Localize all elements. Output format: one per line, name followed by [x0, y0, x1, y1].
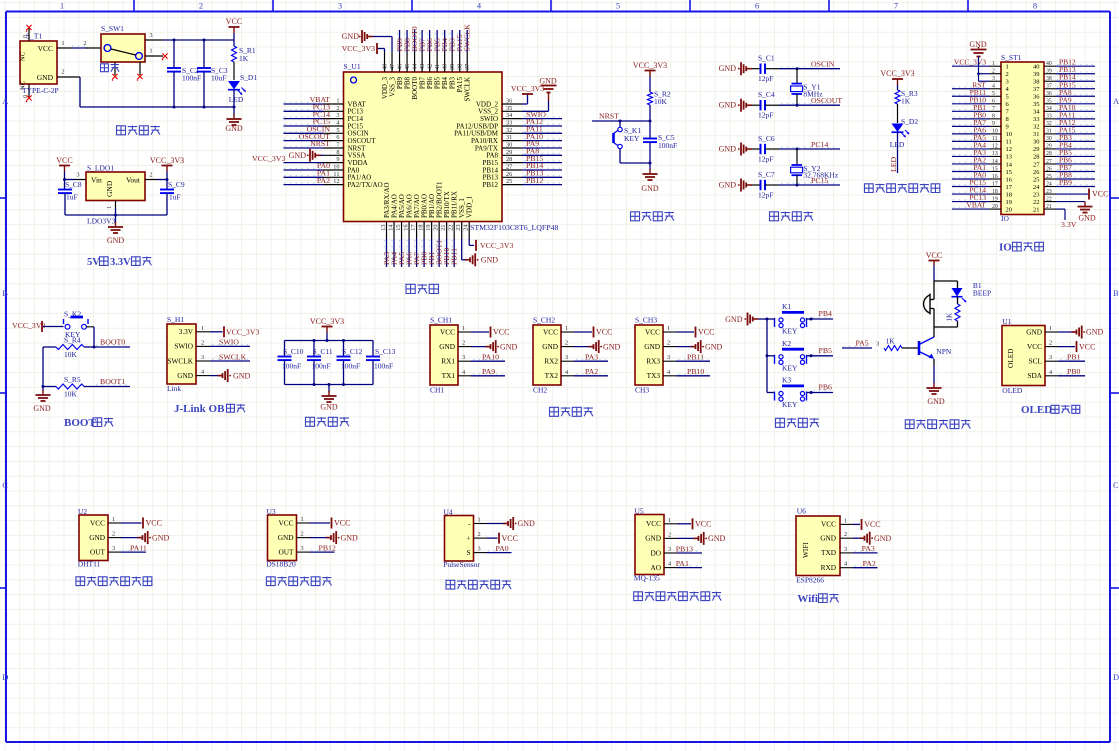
svg-text:S_U1: S_U1 — [344, 62, 361, 71]
svg-text:23: 23 — [1033, 191, 1040, 198]
svg-text:GND: GND — [105, 180, 114, 197]
svg-text:1: 1 — [61, 40, 64, 47]
U1 top pin stubs — [382, 52, 472, 72]
svg-text:3: 3 — [844, 546, 847, 553]
ground at H1 pin 4 — [210, 369, 251, 382]
ST1 right pin stubs — [1044, 61, 1056, 210]
net label BOOT1 wire — [84, 377, 130, 387]
no-connect X under SW1 pin b — [137, 74, 143, 81]
svg-text:OUT: OUT — [90, 547, 106, 556]
net label PA2 wire — [574, 367, 608, 376]
svg-text:VCC: VCC — [90, 518, 105, 527]
svg-text:PB11: PB11 — [450, 248, 459, 265]
ST1 left net label wires — [952, 58, 990, 210]
svg-text:21: 21 — [1046, 204, 1052, 210]
pushbutton K2 BOOT KEY — [64, 310, 95, 348]
ground at U1 VSS_1 — [462, 239, 499, 267]
svg-text:0: 0 — [23, 35, 29, 38]
svg-text:3: 3 — [565, 354, 568, 361]
svg-text:VCC: VCC — [695, 520, 711, 529]
svg-text:11: 11 — [1006, 139, 1012, 146]
svg-text:BOOT1: BOOT1 — [100, 377, 125, 386]
svg-text:38: 38 — [1046, 76, 1052, 82]
pin header ST1 IO expansion — [1001, 53, 1044, 215]
sensor module U2 DHT11 — [78, 507, 108, 569]
svg-text:1: 1 — [201, 325, 204, 332]
svg-text:29: 29 — [506, 149, 512, 156]
svg-text:7: 7 — [894, 1, 898, 11]
sensor module U4 PulseSensor — [443, 508, 480, 570]
resistor R1 1K — [232, 40, 256, 80]
svg-text:12pF: 12pF — [758, 111, 773, 120]
svg-text:DS18B20: DS18B20 — [266, 560, 296, 569]
svg-text:37: 37 — [1033, 86, 1040, 93]
filter VCC rail and GND rail — [285, 339, 374, 386]
display module U1 OLED — [1002, 317, 1045, 395]
capacitor S_C11 100nF — [307, 341, 333, 385]
svg-text:DO: DO — [650, 548, 661, 557]
svg-text:14: 14 — [992, 159, 998, 165]
net label VCC_3V3 at U1 VDD_3 — [342, 43, 385, 54]
title 混合气体检测模块 — [634, 592, 721, 601]
ground return wire of power circuit — [57, 69, 236, 109]
power flag VCC_3V3 at U1 VDD_2 — [511, 84, 544, 104]
svg-text:39: 39 — [449, 64, 456, 70]
svg-text:VCC: VCC — [440, 327, 455, 336]
svg-text:3: 3 — [462, 354, 465, 361]
svg-text:VDD_1: VDD_1 — [466, 195, 474, 218]
svg-text:45: 45 — [404, 64, 411, 70]
svg-text:TX3: TX3 — [647, 371, 661, 380]
capacitor C9 1uF — [160, 180, 185, 216]
svg-text:OLED: OLED — [1002, 386, 1023, 395]
connector T1 TYPE-C-2P — [20, 29, 59, 99]
pushbutton K1 reset KEY — [614, 121, 651, 163]
svg-text:PB12: PB12 — [319, 543, 336, 552]
svg-text:DHT11: DHT11 — [78, 560, 101, 569]
svg-text:VCC: VCC — [146, 519, 162, 528]
net label PA11 wire — [121, 543, 147, 552]
U1 left pin stubs 1-12 — [324, 98, 344, 186]
svg-text:K3: K3 — [782, 376, 791, 385]
svg-text:10: 10 — [1006, 131, 1013, 138]
U3 pin stubs — [297, 516, 310, 552]
svg-text:1: 1 — [844, 517, 847, 524]
svg-text:GND: GND — [289, 151, 307, 160]
svg-text:5: 5 — [336, 127, 339, 134]
svg-text:WIFI: WIFI — [801, 542, 810, 558]
svg-text:NPN: NPN — [936, 347, 952, 356]
capacitor C4 12pF with OSCOUT wire — [719, 90, 843, 119]
svg-text:2: 2 — [201, 339, 204, 346]
title 程序运行指示灯 — [865, 184, 940, 193]
power flag VCC at OLED pin 2 — [1058, 341, 1095, 352]
svg-text:K1: K1 — [782, 302, 791, 311]
crystal Y2 32.768KHz — [791, 148, 839, 187]
wifi module U6 ESP8266 — [796, 507, 840, 585]
svg-text:SCL: SCL — [1029, 357, 1043, 366]
svg-text:S_C13: S_C13 — [375, 347, 396, 356]
svg-text:IO: IO — [999, 242, 1012, 254]
svg-text:S_ST1: S_ST1 — [1001, 53, 1022, 62]
svg-text:36: 36 — [506, 98, 512, 105]
svg-text:3: 3 — [201, 354, 204, 361]
svg-text:PA2/TX/AO: PA2/TX/AO — [348, 181, 383, 189]
LED D1 — [228, 73, 257, 107]
svg-text:11: 11 — [333, 171, 339, 178]
svg-text:GND: GND — [542, 342, 558, 351]
svg-text:KEY: KEY — [624, 134, 640, 143]
svg-text:10: 10 — [333, 163, 339, 170]
svg-text:GND: GND — [341, 533, 359, 542]
svg-text:S_C10: S_C10 — [283, 347, 304, 356]
ground symbol at U1 pin VSSA — [289, 149, 324, 162]
svg-text:S_C7: S_C7 — [758, 170, 775, 179]
svg-text:22: 22 — [448, 225, 455, 231]
svg-text:LED: LED — [889, 156, 898, 172]
svg-text:1K: 1K — [946, 313, 954, 322]
ground at U1 VSS_2 — [522, 77, 557, 112]
svg-text:47: 47 — [389, 64, 396, 70]
svg-text:100nF: 100nF — [374, 362, 393, 371]
title 5V转3.3V电路 — [87, 257, 151, 268]
svg-text:MQ-135: MQ-135 — [634, 574, 660, 583]
svg-text:PA11: PA11 — [130, 543, 147, 552]
ground symbol GND of LDO circuit — [107, 215, 125, 245]
svg-text:U6: U6 — [797, 507, 806, 516]
svg-text:30: 30 — [1033, 139, 1040, 146]
svg-text:GND: GND — [320, 403, 338, 412]
svg-text:22: 22 — [1046, 196, 1052, 202]
svg-text:SWCLK: SWCLK — [463, 24, 472, 52]
svg-text:ESP8266: ESP8266 — [796, 576, 824, 585]
U5 pin stubs — [664, 517, 677, 568]
svg-text:VCC_3V3: VCC_3V3 — [342, 44, 375, 53]
svg-text:42: 42 — [427, 64, 434, 70]
no-connect X under SW1 pin a — [112, 74, 118, 81]
title Wifi模块 — [797, 593, 838, 605]
svg-text:1K: 1K — [239, 54, 249, 63]
svg-text:S_CH1: S_CH1 — [430, 316, 452, 325]
power flag VCC at CH3 — [676, 327, 714, 338]
sensor module U5 MQ-135 — [634, 507, 664, 583]
svg-text:3: 3 — [338, 1, 342, 11]
svg-text:40: 40 — [1046, 61, 1052, 67]
svg-text:D: D — [2, 672, 8, 682]
svg-text:3.3V: 3.3V — [110, 257, 131, 268]
svg-text:NRST: NRST — [599, 112, 619, 121]
svg-text:1: 1 — [462, 325, 465, 332]
svg-text:S_H1: S_H1 — [167, 315, 184, 324]
svg-text:RXD: RXD — [821, 563, 836, 572]
svg-text:18: 18 — [992, 189, 998, 195]
svg-text:21: 21 — [440, 225, 447, 231]
svg-text:12: 12 — [333, 178, 339, 185]
net label BOOT0 wire — [94, 338, 130, 348]
header H1 J-Link — [167, 315, 196, 393]
LDO1 pin 3 wire — [65, 172, 87, 180]
svg-text:14: 14 — [1006, 161, 1013, 168]
svg-text:GND: GND — [233, 371, 251, 380]
net label PB11 wire — [676, 353, 710, 362]
svg-text:SWCLK: SWCLK — [219, 352, 247, 361]
svg-text:20: 20 — [992, 204, 998, 210]
alarm ground — [927, 365, 945, 406]
capacitor S_C13 100nF — [366, 341, 396, 385]
svg-text:2: 2 — [992, 69, 995, 75]
svg-text:Vin: Vin — [91, 176, 102, 185]
svg-text:PB9: PB9 — [1059, 178, 1072, 187]
power flag VCC at U6 — [853, 519, 881, 530]
svg-text:1: 1 — [149, 48, 152, 55]
svg-text:1: 1 — [60, 1, 64, 11]
svg-text:23: 23 — [455, 225, 462, 231]
svg-text:GND: GND — [89, 533, 105, 542]
power flag VCC at U4 — [487, 533, 518, 544]
ground at U6 — [853, 532, 892, 545]
connector CH1 serial — [430, 316, 458, 395]
svg-text:PB13: PB13 — [676, 544, 693, 553]
no-connect X on T1 bottom pin — [26, 95, 32, 102]
svg-text:30: 30 — [1046, 136, 1052, 142]
svg-text:GND: GND — [1026, 327, 1042, 336]
svg-text:PB5: PB5 — [819, 346, 833, 355]
svg-text:100nF: 100nF — [182, 74, 201, 83]
svg-text:S: S — [466, 548, 470, 557]
svg-text:36: 36 — [1033, 94, 1040, 101]
svg-text:1: 1 — [301, 516, 304, 523]
power flag VCC at CH2 — [574, 327, 612, 338]
svg-text:S_R4: S_R4 — [64, 336, 81, 345]
power flag VCC at CH1 — [471, 327, 509, 338]
net label PA1 wire — [676, 559, 702, 568]
connector CH2 serial — [533, 316, 561, 395]
microcontroller U1 STM32F103C8T6 — [344, 62, 503, 222]
svg-text:D: D — [1113, 672, 1119, 682]
svg-text:3: 3 — [301, 545, 304, 552]
svg-text:34: 34 — [1046, 106, 1052, 112]
svg-text:S_R5: S_R5 — [64, 375, 81, 384]
svg-text:OSCOUT: OSCOUT — [811, 96, 842, 105]
svg-text:2: 2 — [565, 340, 568, 347]
svg-text:CH2: CH2 — [533, 386, 547, 395]
svg-text:GND: GND — [705, 342, 723, 351]
svg-text:5: 5 — [616, 1, 620, 11]
svg-text:GND: GND — [518, 519, 536, 528]
CH3 pin stubs — [663, 325, 676, 376]
svg-text:8: 8 — [992, 114, 995, 120]
svg-text:PC15: PC15 — [811, 176, 828, 185]
svg-text:SWIO: SWIO — [174, 342, 193, 351]
capacitor C8 1uF — [58, 178, 82, 215]
svg-text:1uF: 1uF — [66, 193, 78, 202]
svg-text:NC: NC — [20, 52, 27, 61]
U1 bottom pin stubs — [380, 222, 470, 239]
svg-text:36: 36 — [1046, 91, 1052, 97]
svg-text:3: 3 — [1049, 354, 1052, 361]
svg-text:44: 44 — [412, 63, 419, 70]
ground at CH3 — [676, 340, 723, 353]
svg-text:GND: GND — [644, 342, 660, 351]
svg-text:GND: GND — [603, 342, 621, 351]
svg-text:CH3: CH3 — [635, 386, 649, 395]
svg-text:35: 35 — [506, 105, 512, 112]
svg-text:22: 22 — [1033, 199, 1040, 206]
svg-text:3: 3 — [149, 32, 152, 39]
ground at CH1 — [471, 340, 518, 353]
title 电源电路 — [117, 126, 160, 135]
title 按键电路 — [776, 418, 819, 427]
svg-text:24: 24 — [1046, 181, 1052, 187]
svg-text:VCC_3V3: VCC_3V3 — [310, 317, 344, 326]
svg-text:3: 3 — [112, 545, 115, 552]
svg-text:GND: GND — [152, 533, 170, 542]
LED D3 of alarm — [952, 281, 992, 303]
svg-text:4: 4 — [992, 84, 995, 90]
svg-text:20: 20 — [433, 225, 440, 231]
title OLED显示屏 — [1021, 404, 1080, 416]
svg-text:GND: GND — [725, 315, 743, 324]
power flag VCC at U5 — [677, 518, 711, 529]
ST1 right net label wires — [1056, 58, 1095, 187]
ground symbol reset circuit — [641, 163, 659, 193]
svg-text:VCC: VCC — [821, 520, 836, 529]
svg-text:13: 13 — [380, 225, 387, 231]
svg-text:27: 27 — [1033, 161, 1040, 168]
ground symbol GND power circuit — [225, 107, 243, 133]
svg-text:VCC_3V3: VCC_3V3 — [954, 58, 986, 67]
svg-text:18: 18 — [1006, 191, 1013, 198]
svg-text:VCC_3V3: VCC_3V3 — [480, 241, 513, 250]
net label PB10 wire — [676, 367, 710, 376]
svg-text:CH1: CH1 — [430, 386, 444, 395]
power flag VCC_3V3 filter — [310, 317, 344, 341]
svg-text:29: 29 — [1033, 146, 1040, 153]
svg-text:17: 17 — [410, 225, 417, 231]
resistor R7 1K at base — [842, 337, 919, 351]
svg-text:2: 2 — [112, 531, 115, 538]
svg-text:31: 31 — [1046, 129, 1052, 135]
svg-text:16: 16 — [403, 225, 410, 231]
CH1 pin stubs — [458, 325, 471, 376]
svg-text:27: 27 — [506, 163, 512, 170]
net label VCC_3V3 at U1 pin VDDA — [252, 154, 324, 163]
svg-text:13: 13 — [992, 151, 998, 157]
svg-text:VCC: VCC — [502, 534, 518, 543]
svg-text:S_C4: S_C4 — [758, 90, 775, 99]
svg-text:32: 32 — [1033, 124, 1040, 131]
svg-text:VCC_3V3: VCC_3V3 — [12, 321, 45, 330]
svg-text:GND: GND — [874, 534, 892, 543]
svg-text:1: 1 — [667, 325, 670, 332]
svg-text:38: 38 — [1033, 79, 1040, 86]
svg-text:PulseSensor: PulseSensor — [443, 560, 480, 569]
svg-text:2: 2 — [301, 531, 304, 538]
svg-text:SWCLK: SWCLK — [464, 77, 472, 102]
svg-text:GND: GND — [500, 342, 518, 351]
svg-text:PA2: PA2 — [585, 367, 598, 376]
SW1 pin 3 wire to VCC rail — [145, 32, 234, 42]
svg-text:14: 14 — [388, 224, 395, 231]
svg-text:20: 20 — [1006, 206, 1013, 213]
svg-text:S_D2: S_D2 — [901, 117, 918, 126]
svg-text:TX2: TX2 — [545, 371, 559, 380]
svg-text:8: 8 — [336, 149, 339, 156]
SW1 pin 1 stub with no-connect — [145, 48, 168, 61]
svg-text:100nF: 100nF — [312, 362, 331, 371]
LDO1 ground pin wire and rail — [65, 201, 167, 217]
svg-text:9: 9 — [1006, 124, 1009, 131]
title 串口电路 — [550, 407, 593, 416]
svg-text:GND: GND — [641, 184, 659, 193]
U1 left net label wires — [284, 95, 331, 185]
svg-text:GND: GND — [342, 32, 360, 41]
svg-text:VCC: VCC — [334, 519, 350, 528]
svg-text:VCC_3V3: VCC_3V3 — [252, 154, 285, 163]
svg-text:S_SW1: S_SW1 — [101, 24, 124, 33]
svg-text:10K: 10K — [64, 350, 78, 359]
svg-text:PA0: PA0 — [496, 544, 509, 553]
svg-text:25: 25 — [1046, 174, 1052, 180]
svg-text:3.3V: 3.3V — [179, 327, 194, 336]
svg-text:19: 19 — [1006, 199, 1013, 206]
resistor R6 1K vertical — [934, 297, 960, 327]
svg-text:+: + — [466, 533, 470, 542]
svg-text:32: 32 — [1046, 121, 1052, 127]
svg-text:S_D1: S_D1 — [240, 73, 257, 82]
ground at CH2 — [574, 340, 621, 353]
net label PB12 wire — [310, 543, 336, 552]
svg-text:GND: GND — [719, 101, 737, 110]
svg-text:SWCLK: SWCLK — [167, 356, 193, 365]
svg-text:3: 3 — [76, 172, 79, 179]
svg-text:19: 19 — [992, 196, 998, 202]
svg-text:GND: GND — [107, 236, 125, 245]
svg-text:100nF: 100nF — [282, 362, 301, 371]
ground at ST1 pin 22 — [1056, 202, 1096, 223]
power flag VCC_3V3 indicator — [880, 69, 914, 90]
svg-text:VCC: VCC — [56, 156, 72, 165]
title J-Link OB接口 — [174, 403, 245, 415]
svg-text:41: 41 — [434, 64, 441, 70]
title 温度检测模块 — [266, 577, 331, 586]
svg-text:12pF: 12pF — [758, 74, 773, 83]
svg-text:A: A — [1113, 96, 1119, 106]
svg-text:3: 3 — [1006, 79, 1009, 86]
svg-text:GND: GND — [278, 533, 294, 542]
svg-text:33: 33 — [1033, 116, 1040, 123]
title 复位电路 — [631, 212, 674, 221]
svg-text:40: 40 — [442, 64, 449, 70]
capacitor S_C10 100nF — [278, 341, 304, 385]
svg-text:2: 2 — [1006, 71, 1009, 78]
svg-text:PB12: PB12 — [482, 181, 498, 189]
svg-text:2: 2 — [667, 340, 670, 347]
svg-text:8: 8 — [1033, 1, 1037, 11]
svg-text:1K: 1K — [901, 97, 911, 106]
svg-text:GND: GND — [719, 145, 737, 154]
svg-text:37: 37 — [1046, 84, 1052, 90]
svg-text:27: 27 — [1046, 159, 1052, 165]
svg-text:26: 26 — [1046, 166, 1052, 172]
power flag VCC at LDO input — [56, 156, 72, 180]
capacitor C2 100nF — [167, 40, 201, 107]
svg-text:1uF: 1uF — [169, 193, 181, 202]
resistor R3 1K — [895, 89, 918, 123]
svg-text:VCC: VCC — [38, 44, 53, 53]
title 声光报警电路 — [905, 420, 970, 429]
svg-text:S_LDO1: S_LDO1 — [87, 164, 114, 173]
